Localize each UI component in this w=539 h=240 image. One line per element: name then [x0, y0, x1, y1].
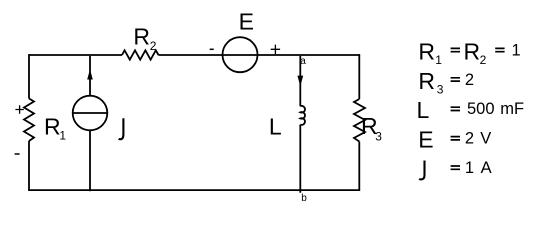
svg-text:1: 1	[465, 159, 474, 177]
wire J branch lower	[89, 130, 91, 191]
svg-text:1: 1	[435, 53, 442, 67]
wire left lower	[28, 141, 30, 191]
svg-text:R: R	[418, 38, 435, 64]
svg-text:500: 500	[467, 100, 495, 118]
svg-text:R: R	[133, 24, 150, 50]
svg-text:2: 2	[150, 39, 157, 53]
wire bottom	[29, 189, 359, 191]
svg-text:L: L	[417, 97, 430, 123]
svg-text:b: b	[301, 193, 307, 204]
value label J = 1 A	[419, 159, 492, 179]
label R2	[133, 24, 156, 53]
svg-text:1: 1	[59, 128, 66, 142]
E minus sign	[210, 48, 214, 50]
svg-text:2: 2	[465, 71, 474, 89]
svg-text:E: E	[418, 127, 433, 153]
current source J bar	[73, 112, 108, 114]
svg-text:R: R	[464, 38, 481, 64]
svg-text:R: R	[44, 113, 61, 139]
svg-text:A: A	[481, 159, 492, 177]
wire node a branch upper	[299, 56, 301, 106]
wire node b branch lower	[299, 125, 301, 193]
wire J branch upper	[89, 56, 91, 96]
current source J circle	[73, 96, 108, 131]
resistor R2	[122, 50, 159, 59]
R1 plus sign	[15, 105, 23, 113]
resistor R1	[24, 99, 34, 142]
svg-text:3: 3	[437, 82, 444, 96]
value label R3 = 2	[418, 68, 474, 97]
inductor L	[300, 106, 305, 125]
svg-text:E: E	[239, 9, 254, 35]
wire right upper	[358, 54, 360, 99]
svg-text:3: 3	[375, 130, 382, 144]
current source J arrow	[87, 69, 93, 79]
svg-text:R: R	[418, 68, 435, 94]
svg-text:2: 2	[465, 130, 474, 148]
node a current arrow	[297, 76, 303, 87]
wire right lower	[358, 142, 360, 192]
E plus sign	[271, 45, 280, 54]
R1 minus sign	[15, 153, 20, 155]
wire left upper	[28, 54, 30, 98]
svg-text:2: 2	[480, 53, 487, 67]
resistor R3	[354, 99, 365, 142]
value label L = 500 mF	[417, 97, 525, 123]
svg-text:mF: mF	[500, 100, 524, 118]
label R1	[44, 113, 66, 142]
svg-text:V: V	[480, 130, 491, 148]
value label R1 = R2 = 1	[418, 38, 520, 67]
label R3	[361, 113, 382, 144]
value label E = 2 V	[418, 127, 491, 153]
svg-text:L: L	[269, 114, 282, 140]
wire top-right segment	[159, 54, 360, 56]
label J	[119, 118, 124, 139]
svg-text:1: 1	[512, 41, 521, 59]
svg-text:a: a	[300, 56, 306, 67]
voltage source E	[223, 37, 258, 72]
wire top-left segment	[29, 54, 122, 56]
